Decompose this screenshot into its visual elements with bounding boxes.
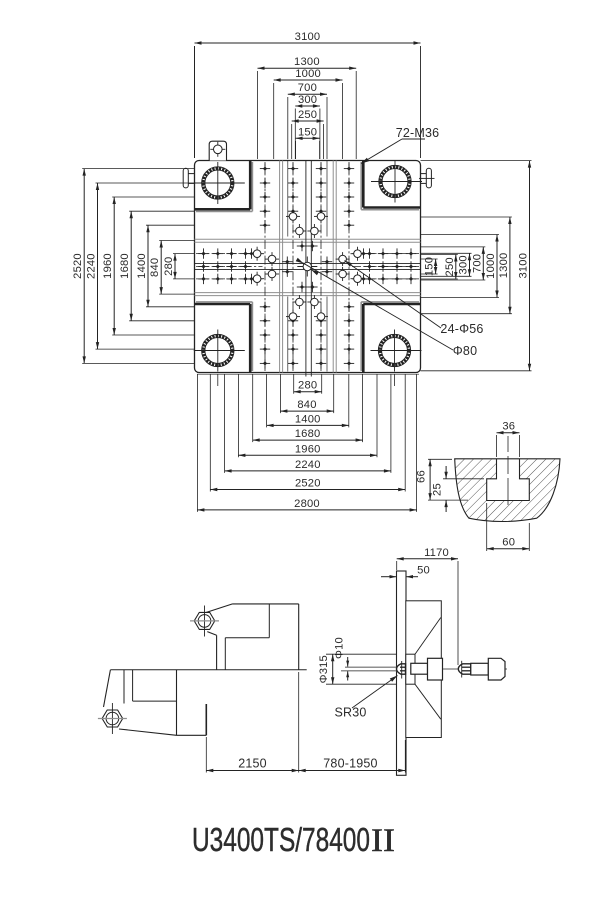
dim 280 bottom	[294, 380, 322, 394]
leader SR30	[334, 676, 397, 720]
platen bottom edge shadow	[197, 373, 419, 375]
svg-text:150: 150	[424, 257, 436, 276]
dim 780-1950	[299, 740, 406, 773]
dim 250 top	[292, 109, 324, 123]
svg-text:250: 250	[444, 257, 456, 276]
svg-text:280: 280	[163, 257, 175, 276]
dim 1400 left	[136, 225, 150, 307]
svg-text:SR30: SR30	[334, 706, 366, 720]
vertical T-slots	[280, 161, 337, 373]
svg-text:1960: 1960	[295, 443, 321, 455]
svg-text:2240: 2240	[86, 253, 98, 279]
leader 24-Phi56	[345, 261, 484, 337]
tie bar holes	[194, 162, 245, 204]
svg-text:1960: 1960	[102, 253, 114, 279]
svg-text:1300: 1300	[294, 56, 320, 68]
dim 300 right	[458, 253, 472, 276]
svg-text:840: 840	[149, 258, 161, 277]
center hole	[297, 257, 317, 277]
center horizontal slot	[195, 264, 421, 270]
svg-text:150: 150	[298, 126, 317, 138]
svg-text:25: 25	[432, 483, 444, 496]
right extension lines	[421, 161, 532, 371]
top ear hole	[210, 142, 225, 157]
detail dim 66	[416, 459, 469, 500]
lower tie bar nut	[98, 703, 127, 734]
dim 1170	[397, 547, 458, 665]
dim 700 top	[288, 82, 327, 96]
detail dim 60	[487, 503, 530, 551]
leader 72-M36	[361, 126, 439, 164]
svg-text:280: 280	[298, 380, 317, 392]
svg-text:1400: 1400	[295, 413, 321, 425]
nozzle centerline	[420, 668, 507, 670]
corner block bottom-right	[361, 302, 420, 373]
title model number	[192, 821, 395, 859]
svg-text:1680: 1680	[295, 428, 321, 440]
injection screw rod	[341, 667, 397, 671]
top extension lines	[195, 46, 421, 159]
dim 1960 left	[102, 197, 116, 335]
dim 2240 left	[86, 183, 100, 349]
dim 1000 top	[274, 68, 343, 82]
dim 1680 bottom	[253, 428, 363, 442]
upper tie bar nut	[190, 606, 219, 637]
T-slot detail section	[455, 436, 560, 522]
dim Phi10	[333, 637, 349, 680]
left side tab pin	[183, 168, 194, 188]
detail dim 25	[432, 466, 485, 512]
svg-text:3100: 3100	[518, 253, 530, 279]
stationary platen plate	[397, 571, 407, 775]
svg-text:3100: 3100	[295, 31, 321, 43]
svg-text:66: 66	[416, 470, 428, 483]
svg-text:II: II	[371, 823, 395, 859]
platen outer plate	[195, 161, 421, 373]
dim 1300 top	[258, 56, 357, 70]
bottom extension lines	[197, 374, 416, 512]
svg-text:36: 36	[502, 421, 515, 433]
top ear lug	[209, 141, 226, 160]
center vertical slot	[306, 161, 311, 377]
svg-text:300: 300	[298, 94, 317, 106]
dim 2520 bottom	[210, 478, 405, 492]
clamp body upper half	[206, 604, 299, 670]
svg-text:1300: 1300	[498, 253, 510, 279]
left extension lines	[82, 169, 194, 364]
svg-text:1170: 1170	[424, 547, 449, 559]
row centerlines	[196, 254, 419, 279]
svg-text:1000: 1000	[295, 68, 321, 80]
svg-text:700: 700	[298, 82, 317, 94]
svg-text:60: 60	[502, 537, 515, 549]
dim 150 top	[296, 126, 320, 140]
nozzle support block	[406, 601, 442, 738]
dim 250 right	[444, 255, 458, 280]
right side tab pin	[419, 168, 435, 188]
svg-text:Φ315: Φ315	[318, 655, 330, 683]
dim 840 bottom	[280, 399, 333, 413]
dim 2520 left	[72, 169, 86, 364]
dim 1400 bottom	[267, 413, 349, 427]
dim 1300 right	[498, 217, 512, 314]
svg-text:Φ80: Φ80	[453, 344, 477, 358]
dim 2800 bottom	[197, 498, 416, 512]
dim 1960 bottom	[238, 443, 377, 457]
dim Phi315	[318, 654, 396, 684]
clamp body lower half	[104, 670, 207, 736]
svg-text:72-M36: 72-M36	[396, 126, 440, 140]
corner block bottom-left	[195, 302, 253, 373]
dim 50	[381, 565, 430, 579]
leader Phi80	[296, 258, 478, 358]
dim 2240 bottom	[225, 459, 391, 473]
dim 700 right	[471, 247, 485, 280]
mounting holes pattern	[198, 163, 416, 368]
svg-text:24-Φ56: 24-Φ56	[440, 322, 483, 336]
svg-text:1680: 1680	[119, 253, 131, 279]
dim 300 top	[295, 94, 320, 108]
dim 840 left	[149, 241, 163, 295]
corner block top-right	[361, 161, 420, 210]
dim 150 right	[424, 257, 438, 276]
horizontal T-slots	[195, 239, 421, 295]
nozzle at platen	[397, 658, 443, 680]
svg-text:1000: 1000	[485, 253, 497, 279]
retracted nozzle	[458, 658, 505, 680]
svg-text:2520: 2520	[72, 253, 84, 279]
dim 2150	[206, 672, 298, 773]
svg-text:Φ10: Φ10	[333, 637, 345, 659]
svg-text:2150: 2150	[238, 757, 267, 771]
dim 3100 top	[195, 31, 421, 45]
svg-text:2520: 2520	[295, 478, 321, 490]
svg-text:300: 300	[458, 255, 470, 274]
dim 1000 right	[485, 235, 499, 298]
svg-text:2240: 2240	[295, 459, 321, 471]
detail dim 36	[497, 421, 520, 458]
svg-text:2800: 2800	[294, 498, 320, 510]
svg-text:780-1950: 780-1950	[323, 757, 377, 771]
svg-text:700: 700	[471, 254, 483, 273]
hole column centerlines	[265, 161, 349, 372]
svg-text:50: 50	[417, 565, 430, 577]
dim 3100 right	[518, 161, 532, 371]
corner block top-left	[195, 161, 253, 212]
dim 280 left	[163, 254, 177, 279]
side view main centerline	[110, 669, 306, 671]
svg-text:1400: 1400	[136, 253, 148, 279]
svg-text:U3400TS/78400: U3400TS/78400	[192, 821, 370, 858]
svg-text:250: 250	[298, 109, 317, 121]
counterbored holes (circle markers)	[250, 209, 364, 323]
dim 1680 left	[119, 211, 133, 321]
svg-text:840: 840	[297, 399, 316, 411]
